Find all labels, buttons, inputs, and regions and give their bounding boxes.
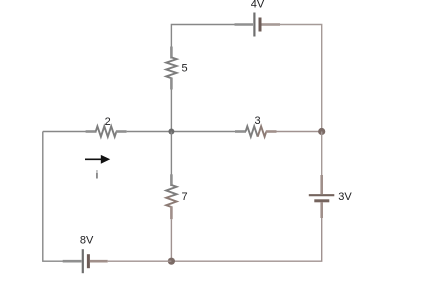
resistor R5 bottom lead <box>170 78 173 90</box>
resistor R3 zigzag (value 3) left half <box>246 126 258 136</box>
wire middle: node A to resistor 3 <box>171 131 246 133</box>
wire middle: R2 to node A <box>127 131 172 133</box>
wire left loop: left corner down to battery 8V <box>43 132 63 262</box>
resistor R7 bottom lead <box>170 206 173 219</box>
svg-text:3V: 3V <box>338 191 352 203</box>
battery V1 4V left lead <box>235 23 254 26</box>
wire right: node B to battery 3V <box>321 132 323 177</box>
wire top-left: node corner to battery 4V left lead <box>171 25 253 47</box>
wire bottom: battery 8V to node C <box>108 260 172 262</box>
battery V3 8V short plate <box>87 254 90 268</box>
node C junction dot <box>168 258 175 265</box>
wire top-right: battery 4V to right corner down to node B <box>262 25 322 132</box>
svg-text:8V: 8V <box>80 235 94 247</box>
wire center: R5 to node A <box>170 90 172 132</box>
resistor R2 right lead <box>116 130 127 133</box>
wire middle-left: left corner to resistor 2 <box>43 131 96 133</box>
battery V1 4V long plate <box>253 13 255 37</box>
node A junction dot <box>168 129 174 135</box>
resistor R7 zigzag (value 7) bottom half <box>166 196 176 207</box>
battery V2 3V top lead <box>320 175 323 194</box>
battery V2 3V short plate <box>314 199 329 202</box>
resistor R2 left lead <box>86 130 97 133</box>
current arrow i <box>85 158 102 160</box>
resistor R7 zigzag (value 7) top half <box>166 185 176 196</box>
battery V2 3V long plate <box>309 194 335 196</box>
resistor R5 zigzag (value 5) <box>166 57 176 78</box>
wire center: node A to resistor 7 <box>170 132 172 176</box>
svg-text:7: 7 <box>182 191 188 203</box>
resistor R3 zigzag (value 3) right half <box>258 126 267 136</box>
battery V1 4V right lead <box>262 23 281 26</box>
battery V1 4V short plate <box>259 18 262 32</box>
battery V3 8V long plate <box>82 249 84 273</box>
battery V3 8V right lead <box>90 260 108 263</box>
node B junction dot <box>318 128 325 135</box>
resistor R7 top lead <box>170 174 173 186</box>
resistor R5 top lead <box>170 47 173 59</box>
resistor R3 left lead <box>235 130 246 133</box>
resistor R3 right lead <box>266 130 277 133</box>
wire middle-right: R3 to node B <box>277 131 322 133</box>
svg-text:3: 3 <box>254 115 260 127</box>
svg-text:2: 2 <box>105 116 111 128</box>
wire center-bottom: R7 to node C <box>170 219 172 261</box>
svg-text:i: i <box>96 170 98 182</box>
svg-text:5: 5 <box>182 63 188 75</box>
battery V2 3V bottom lead <box>320 202 323 218</box>
resistor R2 zigzag (value 2) <box>96 126 117 136</box>
battery V3 8V left lead <box>63 260 82 263</box>
svg-text:4V: 4V <box>251 0 265 11</box>
wire right-bottom: battery 3V to bottom-right corner to node C <box>171 218 321 261</box>
